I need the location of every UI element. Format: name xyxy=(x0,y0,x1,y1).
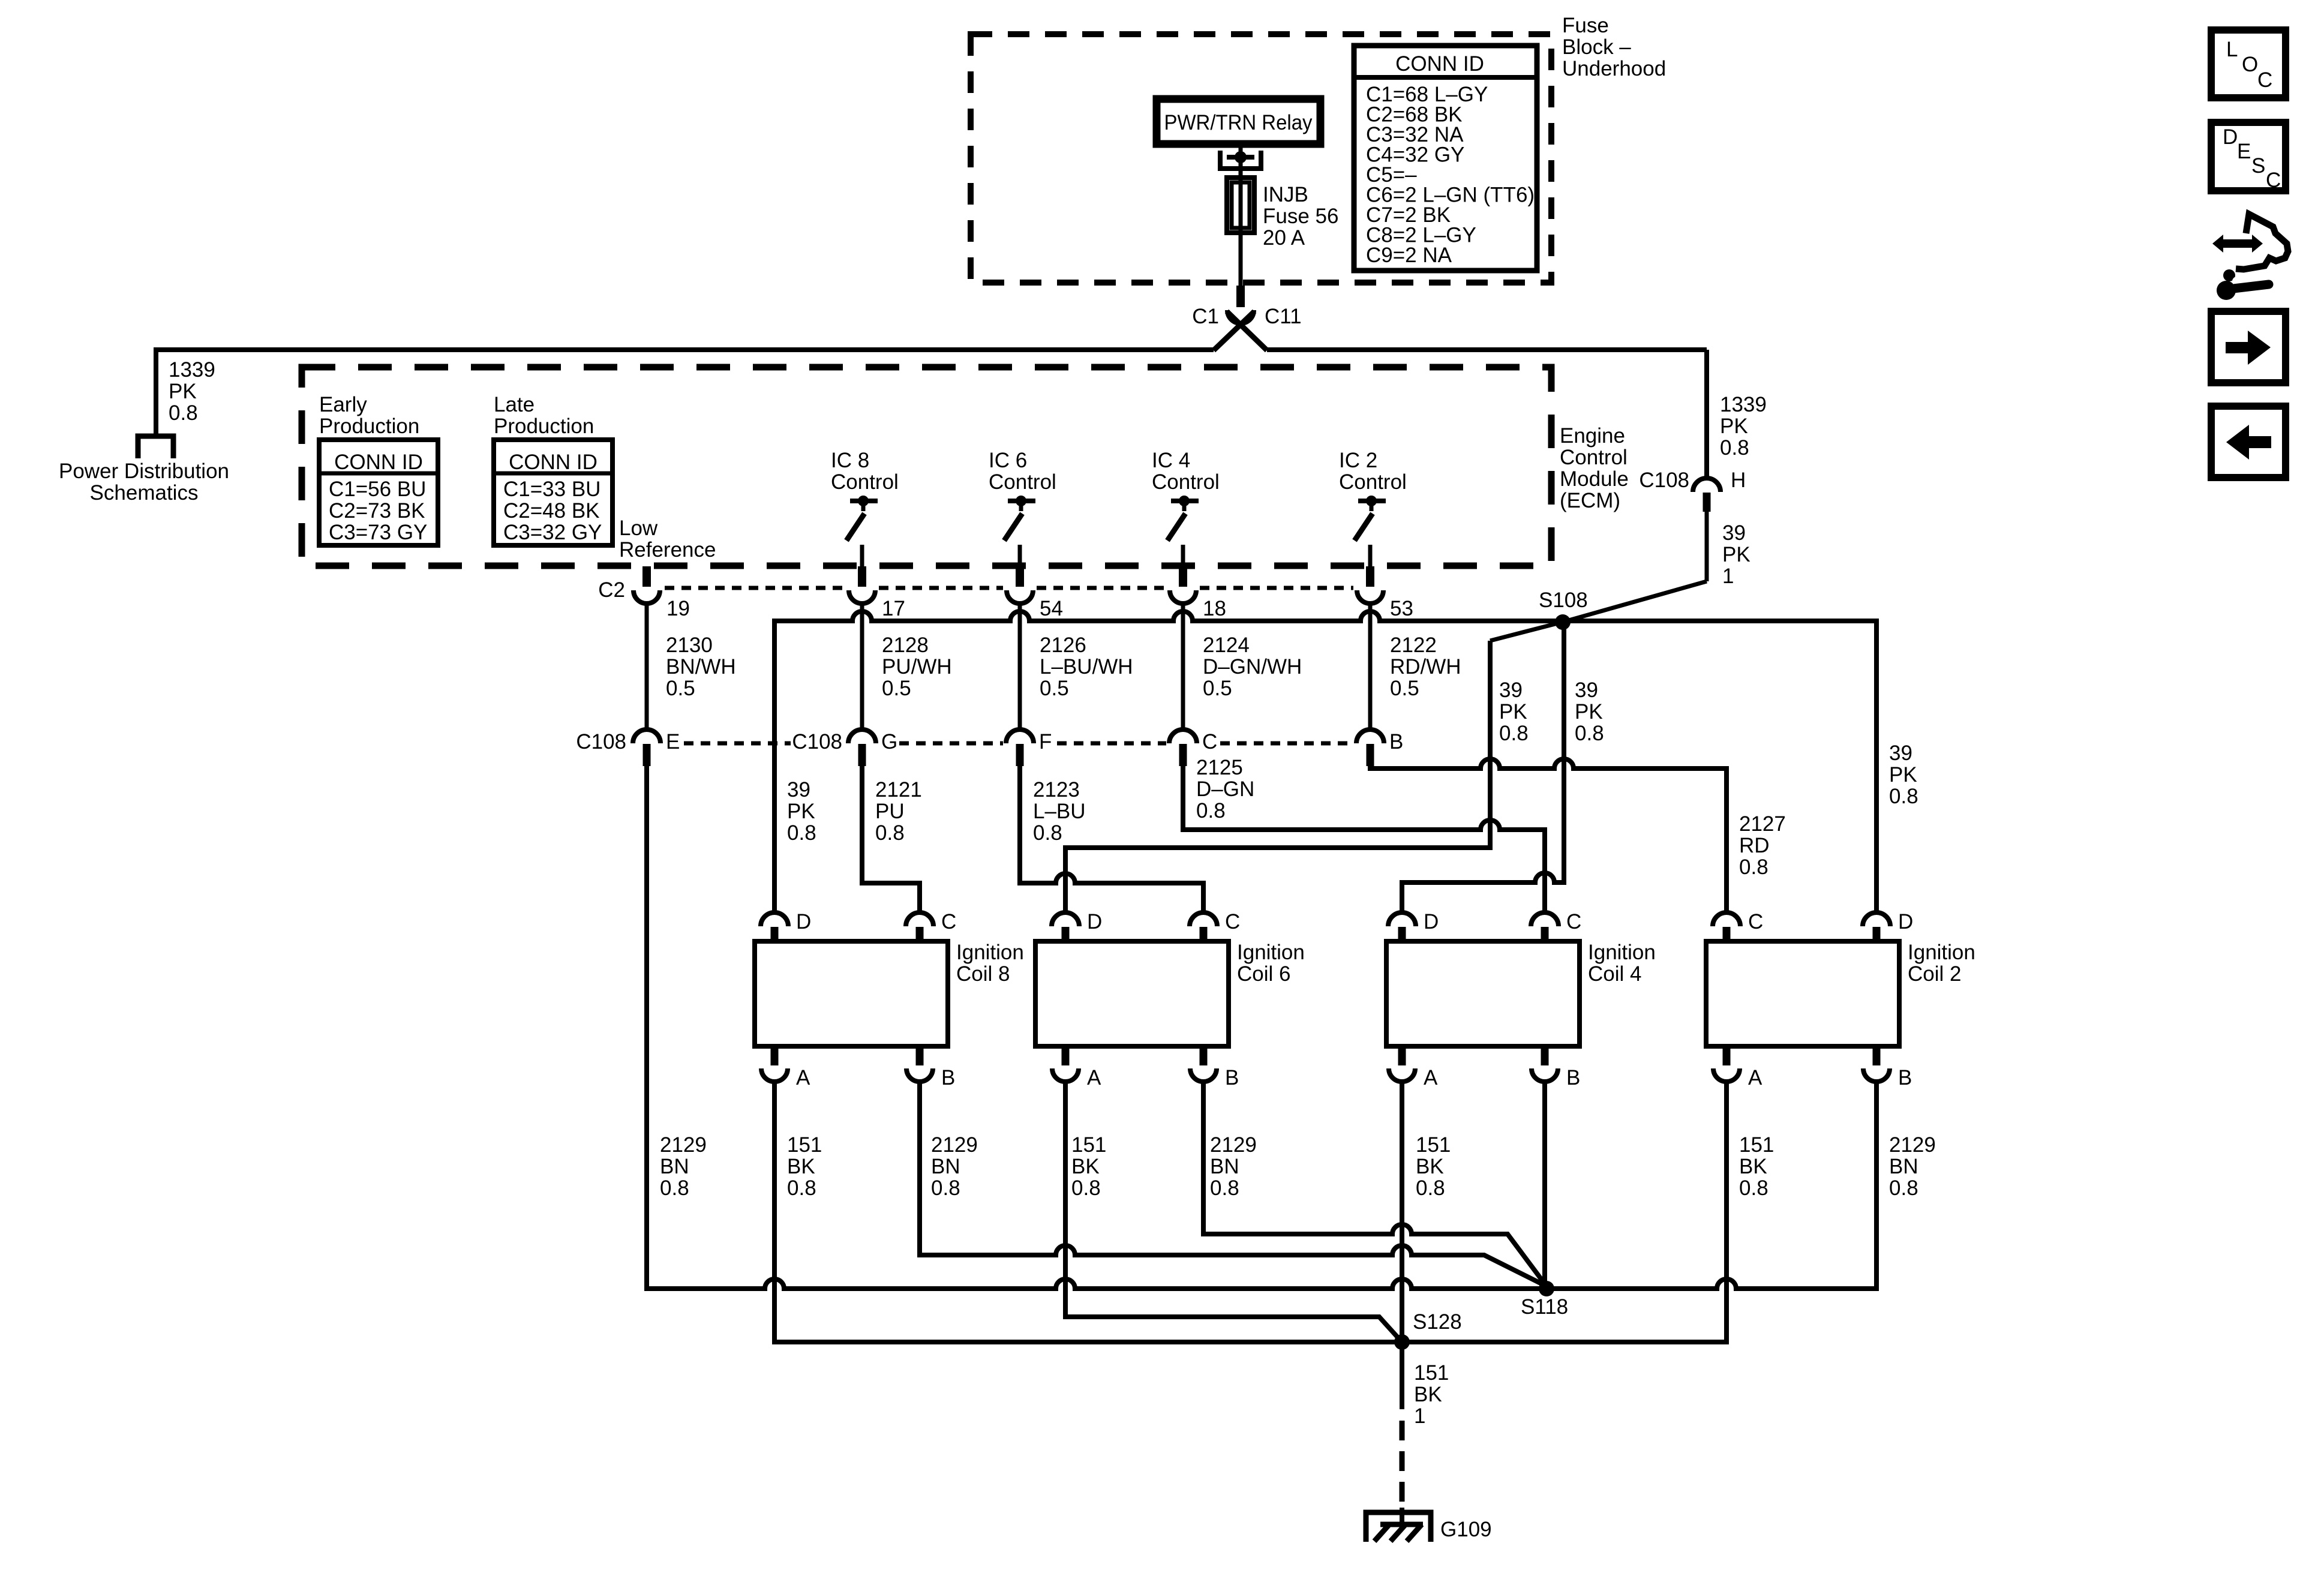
svg-text:2129: 2129 xyxy=(1889,1133,1936,1157)
svg-text:Ignition: Ignition xyxy=(1908,941,1975,964)
svg-text:BK: BK xyxy=(1416,1155,1444,1178)
svg-text:D: D xyxy=(1087,910,1102,933)
svg-text:2130: 2130 xyxy=(666,634,713,657)
svg-text:PK: PK xyxy=(169,380,197,403)
svg-text:RD: RD xyxy=(1739,834,1770,857)
svg-text:D: D xyxy=(2223,125,2238,149)
svg-text:C1=56 BU: C1=56 BU xyxy=(329,478,426,501)
svg-text:1: 1 xyxy=(1414,1404,1425,1428)
svg-text:151: 151 xyxy=(787,1133,822,1157)
svg-text:0.8: 0.8 xyxy=(1499,722,1529,745)
svg-text:L–BU: L–BU xyxy=(1033,800,1086,823)
svg-text:0.8: 0.8 xyxy=(1739,1176,1768,1200)
svg-text:C108: C108 xyxy=(576,730,626,754)
svg-text:C2=48 BK: C2=48 BK xyxy=(503,499,600,523)
svg-text:B: B xyxy=(941,1066,955,1089)
svg-text:Module: Module xyxy=(1560,467,1629,491)
svg-text:C: C xyxy=(1566,910,1581,933)
svg-text:17: 17 xyxy=(882,597,905,620)
svg-text:IC 2: IC 2 xyxy=(1339,449,1377,472)
svg-text:C11: C11 xyxy=(1265,305,1302,328)
svg-text:S: S xyxy=(2251,154,2265,178)
svg-text:151: 151 xyxy=(1071,1133,1106,1157)
svg-text:39: 39 xyxy=(787,778,810,801)
svg-text:CONN ID: CONN ID xyxy=(1395,52,1484,76)
svg-text:Reference: Reference xyxy=(619,538,716,562)
svg-text:2122: 2122 xyxy=(1390,634,1437,657)
svg-text:PK: PK xyxy=(1720,415,1748,438)
svg-text:BN: BN xyxy=(1210,1155,1239,1178)
svg-text:C108: C108 xyxy=(1639,469,1689,492)
svg-text:C: C xyxy=(1225,910,1240,933)
svg-text:39: 39 xyxy=(1499,679,1523,702)
svg-text:D: D xyxy=(1424,910,1439,933)
svg-text:0.8: 0.8 xyxy=(1196,799,1226,822)
svg-text:0.8: 0.8 xyxy=(660,1176,689,1200)
svg-text:D: D xyxy=(796,910,811,933)
svg-text:Ignition: Ignition xyxy=(1237,941,1305,964)
svg-text:D–GN: D–GN xyxy=(1196,778,1254,801)
svg-text:CONN ID: CONN ID xyxy=(509,451,597,474)
svg-text:PK: PK xyxy=(787,800,815,823)
svg-text:IC 8: IC 8 xyxy=(831,449,869,472)
svg-text:0.8: 0.8 xyxy=(1416,1176,1445,1200)
svg-text:Control: Control xyxy=(989,470,1056,494)
svg-text:IC 6: IC 6 xyxy=(989,449,1027,472)
svg-text:H: H xyxy=(1731,469,1746,492)
svg-text:0.5: 0.5 xyxy=(1390,677,1419,700)
svg-text:PK: PK xyxy=(1499,700,1527,724)
svg-text:L: L xyxy=(2226,38,2238,61)
svg-text:Schematics: Schematics xyxy=(90,481,199,505)
svg-text:Coil 4: Coil 4 xyxy=(1588,962,1641,986)
svg-text:PU: PU xyxy=(875,800,905,823)
svg-text:E: E xyxy=(2237,140,2251,163)
svg-text:A: A xyxy=(1087,1066,1101,1089)
svg-text:151: 151 xyxy=(1416,1133,1451,1157)
svg-text:151: 151 xyxy=(1739,1133,1774,1157)
svg-text:Control: Control xyxy=(1339,470,1407,494)
svg-text:C2=73 BK: C2=73 BK xyxy=(329,499,425,523)
svg-text:2129: 2129 xyxy=(1210,1133,1257,1157)
svg-text:19: 19 xyxy=(666,597,690,620)
svg-text:C: C xyxy=(2266,169,2281,192)
svg-text:Block –: Block – xyxy=(1562,35,1631,59)
svg-text:Late: Late xyxy=(494,393,535,416)
svg-text:0.8: 0.8 xyxy=(875,821,905,845)
svg-text:2129: 2129 xyxy=(660,1133,707,1157)
svg-text:2121: 2121 xyxy=(875,778,922,801)
svg-text:B: B xyxy=(1566,1066,1580,1089)
svg-text:G: G xyxy=(881,730,897,754)
svg-text:20 A: 20 A xyxy=(1263,226,1305,250)
svg-text:0.8: 0.8 xyxy=(1889,785,1918,808)
svg-text:0.5: 0.5 xyxy=(1203,677,1232,700)
svg-text:Control: Control xyxy=(831,470,899,494)
svg-text:BN/WH: BN/WH xyxy=(666,655,736,679)
svg-text:Power Distribution: Power Distribution xyxy=(59,460,229,483)
svg-text:0.8: 0.8 xyxy=(1071,1176,1101,1200)
svg-text:C1=33 BU: C1=33 BU xyxy=(503,478,600,501)
svg-text:BK: BK xyxy=(1414,1383,1442,1406)
svg-text:Underhood: Underhood xyxy=(1562,57,1666,80)
svg-text:39: 39 xyxy=(1722,521,1746,545)
svg-text:B: B xyxy=(1225,1066,1239,1089)
svg-text:0.5: 0.5 xyxy=(1040,677,1069,700)
svg-text:CONN ID: CONN ID xyxy=(334,451,423,474)
svg-text:0.8: 0.8 xyxy=(1033,821,1062,845)
svg-text:C108: C108 xyxy=(792,730,842,754)
svg-text:0.8: 0.8 xyxy=(1210,1176,1239,1200)
svg-text:C3=32 GY: C3=32 GY xyxy=(503,521,602,544)
svg-text:C3=73 GY: C3=73 GY xyxy=(329,521,427,544)
svg-text:1339: 1339 xyxy=(1720,393,1767,416)
svg-text:C1: C1 xyxy=(1192,305,1219,328)
svg-text:0.8: 0.8 xyxy=(1575,722,1604,745)
svg-text:O: O xyxy=(2242,53,2258,76)
svg-text:PK: PK xyxy=(1722,543,1750,566)
svg-text:0.8: 0.8 xyxy=(169,401,198,425)
svg-text:C9=2 NA: C9=2 NA xyxy=(1366,244,1452,267)
svg-text:IC 4: IC 4 xyxy=(1152,449,1190,472)
svg-text:151: 151 xyxy=(1414,1361,1449,1385)
svg-text:1339: 1339 xyxy=(169,358,215,382)
svg-text:Fuse 56: Fuse 56 xyxy=(1263,205,1338,228)
svg-text:2124: 2124 xyxy=(1203,634,1250,657)
svg-text:2129: 2129 xyxy=(931,1133,978,1157)
svg-text:INJB: INJB xyxy=(1263,183,1308,206)
svg-text:Production: Production xyxy=(319,415,419,438)
svg-text:S128: S128 xyxy=(1413,1310,1462,1334)
svg-text:0.8: 0.8 xyxy=(787,821,816,845)
svg-text:C: C xyxy=(941,910,956,933)
svg-text:Early: Early xyxy=(319,393,367,416)
svg-text:C: C xyxy=(1202,730,1217,754)
svg-text:0.8: 0.8 xyxy=(1720,436,1749,460)
svg-text:PU/WH: PU/WH xyxy=(882,655,952,679)
svg-text:A: A xyxy=(796,1066,810,1089)
svg-text:2128: 2128 xyxy=(882,634,929,657)
svg-text:Low: Low xyxy=(619,517,658,540)
svg-text:A: A xyxy=(1424,1066,1438,1089)
svg-text:18: 18 xyxy=(1203,597,1226,620)
svg-text:0.8: 0.8 xyxy=(1739,855,1768,879)
svg-text:L–BU/WH: L–BU/WH xyxy=(1040,655,1133,679)
svg-text:S108: S108 xyxy=(1539,589,1588,612)
svg-text:Coil 2: Coil 2 xyxy=(1908,962,1961,986)
svg-text:Ignition: Ignition xyxy=(956,941,1024,964)
svg-text:Coil 8: Coil 8 xyxy=(956,962,1010,986)
svg-text:BN: BN xyxy=(660,1155,689,1178)
svg-text:Production: Production xyxy=(494,415,594,438)
svg-text:C: C xyxy=(2257,68,2272,92)
svg-text:(ECM): (ECM) xyxy=(1560,489,1620,512)
svg-text:54: 54 xyxy=(1040,597,1063,620)
svg-text:C2: C2 xyxy=(598,578,625,602)
svg-text:BK: BK xyxy=(1739,1155,1767,1178)
svg-text:Control: Control xyxy=(1560,446,1628,469)
svg-text:BN: BN xyxy=(931,1155,960,1178)
svg-text:BK: BK xyxy=(1071,1155,1100,1178)
svg-text:Ignition: Ignition xyxy=(1588,941,1656,964)
svg-text:1: 1 xyxy=(1722,565,1734,588)
svg-text:2127: 2127 xyxy=(1739,812,1786,836)
svg-text:0.5: 0.5 xyxy=(666,677,695,700)
svg-text:Control: Control xyxy=(1152,470,1220,494)
svg-text:RD/WH: RD/WH xyxy=(1390,655,1461,679)
svg-text:D–GN/WH: D–GN/WH xyxy=(1203,655,1302,679)
svg-text:0.8: 0.8 xyxy=(1889,1176,1918,1200)
svg-text:Coil 6: Coil 6 xyxy=(1237,962,1290,986)
svg-text:A: A xyxy=(1748,1066,1762,1089)
svg-text:0.8: 0.8 xyxy=(931,1176,960,1200)
svg-text:B: B xyxy=(1898,1066,1912,1089)
svg-text:F: F xyxy=(1039,730,1052,754)
svg-text:0.5: 0.5 xyxy=(882,677,911,700)
svg-text:39: 39 xyxy=(1889,742,1912,765)
svg-text:0.8: 0.8 xyxy=(787,1176,816,1200)
svg-text:G109: G109 xyxy=(1440,1518,1492,1541)
svg-text:C: C xyxy=(1748,910,1763,933)
svg-text:E: E xyxy=(666,730,680,754)
svg-text:2126: 2126 xyxy=(1040,634,1086,657)
svg-text:BK: BK xyxy=(787,1155,815,1178)
svg-text:2123: 2123 xyxy=(1033,778,1080,801)
svg-text:2125: 2125 xyxy=(1196,756,1243,779)
svg-text:BN: BN xyxy=(1889,1155,1918,1178)
svg-text:B: B xyxy=(1389,730,1403,754)
svg-text:Fuse: Fuse xyxy=(1562,14,1609,37)
svg-text:PK: PK xyxy=(1889,763,1917,786)
svg-text:PWR/TRN Relay: PWR/TRN Relay xyxy=(1164,111,1313,134)
svg-text:39: 39 xyxy=(1575,679,1598,702)
svg-text:Engine: Engine xyxy=(1560,424,1625,448)
svg-text:PK: PK xyxy=(1575,700,1603,724)
svg-text:53: 53 xyxy=(1390,597,1413,620)
svg-text:D: D xyxy=(1898,910,1913,933)
svg-text:S118: S118 xyxy=(1521,1295,1568,1319)
